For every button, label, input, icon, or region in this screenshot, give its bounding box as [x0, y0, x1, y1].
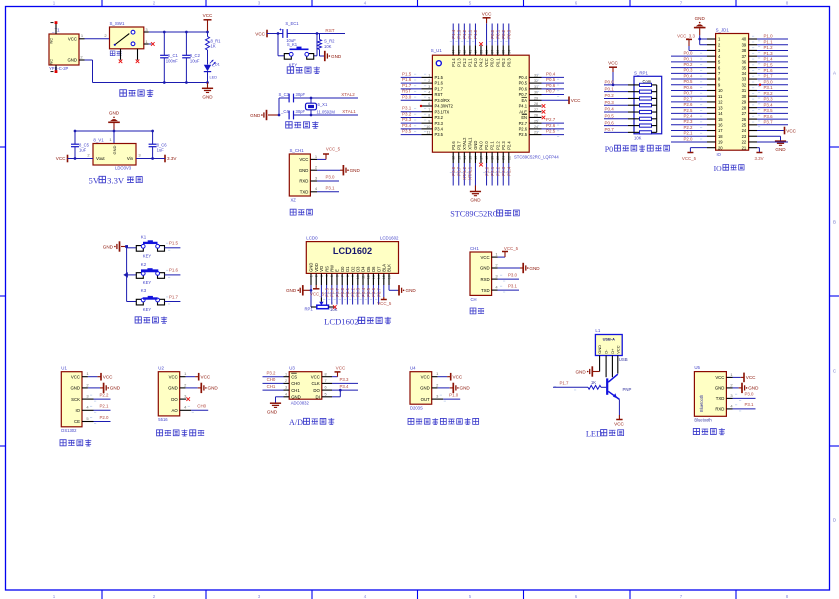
svg-text:P1.7: P1.7 — [559, 381, 569, 386]
svg-text:P1.7: P1.7 — [764, 74, 774, 79]
svg-text:P1.0: P1.0 — [449, 393, 459, 398]
svg-text:IO: IO — [717, 152, 722, 157]
svg-text:P1.2: P1.2 — [462, 29, 467, 39]
svg-text:27: 27 — [742, 111, 747, 116]
svg-text:7: 7 — [680, 594, 683, 599]
svg-text:4: 4 — [285, 392, 287, 396]
svg-text:VCC: VCC — [68, 36, 77, 41]
wire MCU top pin36 — [497, 24, 499, 56]
svg-text:P1.4: P1.4 — [764, 57, 774, 62]
svg-text:K3: K3 — [141, 288, 147, 293]
switch S_SW1 开关 — [110, 21, 144, 55]
svg-text:GND: GND — [695, 16, 706, 21]
svg-text:GND: GND — [331, 54, 342, 59]
svg-text:GND: GND — [286, 288, 297, 293]
pin number 1 — [730, 372, 733, 377]
svg-text:P0.3: P0.3 — [683, 68, 693, 73]
svg-text:GND: GND — [575, 369, 586, 374]
svg-text:2: 2 — [104, 33, 107, 38]
wire LCD pin13 — [372, 273, 374, 304]
wire MCU pin5 — [401, 99, 433, 101]
junction — [277, 32, 319, 35]
wire IO pin37 — [749, 55, 788, 57]
power port 3.3V — [754, 153, 763, 161]
wire pin4 to GND — [276, 397, 290, 403]
svg-text:USB: USB — [619, 357, 628, 362]
pin number 5 — [324, 392, 326, 396]
net label P3.5 — [402, 129, 426, 134]
svg-text:D203S: D203S — [410, 405, 423, 410]
net label P2.6 — [328, 287, 334, 300]
caption 下载口 — [290, 209, 312, 215]
svg-text:CH1: CH1 — [267, 384, 276, 389]
svg-text:VCC: VCC — [299, 157, 308, 162]
svg-text:P3.1: P3.1 — [402, 106, 412, 111]
net label P2.4 — [683, 113, 702, 118]
svg-text:P3.7: P3.7 — [456, 141, 461, 150]
svg-text:2: 2 — [285, 379, 287, 383]
svg-text:2: 2 — [436, 382, 439, 387]
junction — [612, 84, 615, 87]
net label P3.5 — [752, 108, 773, 116]
svg-text:PNP: PNP — [623, 387, 632, 392]
caption 复位电路 — [287, 67, 320, 74]
potentiometer RP1 10K — [305, 301, 338, 312]
wire pin3 — [492, 278, 519, 280]
capacitor S_C4 30pF — [280, 109, 305, 119]
wire USB pin2 — [605, 356, 607, 378]
svg-text:4: 4 — [495, 285, 498, 290]
pin number 4 — [495, 285, 498, 290]
svg-text:1: 1 — [145, 39, 148, 44]
capacitor 8_C5 1uF — [71, 131, 90, 159]
net label XTAL2 — [461, 166, 467, 180]
svg-text:14: 14 — [718, 111, 723, 116]
svg-text:5: 5 — [324, 392, 326, 396]
svg-text:P3.0: P3.0 — [744, 392, 754, 397]
ground — [694, 16, 706, 35]
wire IO pin25 — [749, 124, 788, 126]
MCU bottom pin numbers — [452, 156, 512, 160]
no-connect MCU pin26 — [529, 116, 545, 120]
wire LCD pin10 — [357, 273, 359, 304]
svg-text:VCC: VCC — [715, 375, 724, 380]
wire emitter to VCC — [618, 399, 620, 419]
caption P0口上拉电阻电路 — [605, 145, 670, 154]
svg-text:3: 3 — [258, 594, 261, 599]
ground — [202, 83, 213, 100]
MCU right pin names — [519, 75, 528, 137]
net label P0.4 — [605, 107, 615, 112]
wire LCD pin15 BLA — [383, 273, 385, 299]
svg-text:24: 24 — [742, 128, 747, 133]
svg-text:BLK: BLK — [387, 264, 392, 272]
LED D1 — [204, 60, 221, 80]
net label CH0 — [267, 377, 276, 382]
svg-text:P2.3: P2.3 — [501, 141, 506, 150]
wire pin2 to GND — [432, 387, 453, 389]
svg-text:VCC_5: VCC_5 — [682, 156, 697, 161]
wire MCU pin10 — [401, 128, 433, 130]
svg-text:2: 2 — [86, 382, 89, 387]
svg-text:P3.4: P3.4 — [764, 102, 774, 107]
net label P2.2 — [683, 125, 702, 130]
wire C2 top — [185, 32, 187, 55]
svg-text:_D1: _D1 — [212, 61, 221, 66]
pin number 1 — [86, 371, 89, 376]
svg-text:LCD1602: LCD1602 — [380, 236, 399, 241]
junction — [310, 97, 313, 100]
wire IO pin17 — [671, 130, 716, 132]
svg-text:1: 1 — [495, 252, 498, 257]
svg-text:DS1302: DS1302 — [61, 428, 77, 433]
crystal 6_X1 11.0592M — [306, 98, 336, 115]
wire RP1 pin 1 — [604, 84, 634, 86]
svg-text:P1.5: P1.5 — [402, 71, 412, 76]
wire IO pin34 — [749, 72, 788, 74]
svg-text:GND: GND — [406, 288, 417, 293]
transistor Q1 PNP — [607, 374, 631, 399]
svg-text:Vin: Vin — [127, 156, 134, 161]
svg-text:1: 1 — [53, 594, 56, 599]
net label P0.5 — [605, 114, 615, 119]
wire MCU top pin42 — [463, 24, 465, 56]
svg-text:2: 2 — [87, 152, 90, 157]
svg-text:1: 1 — [315, 154, 318, 159]
wire IO pin40 — [749, 38, 788, 40]
wire MCU top pin34 — [508, 24, 510, 56]
svg-text:22: 22 — [742, 140, 747, 145]
caption A/D转换电路 — [289, 418, 334, 427]
pin number 2 — [86, 382, 89, 387]
svg-text:P1.0: P1.0 — [473, 58, 478, 67]
connector T1 YPB-C-2P — [49, 28, 79, 71]
svg-text:18: 18 — [718, 134, 723, 139]
svg-text:P3.4: P3.4 — [435, 126, 444, 131]
power port VCC — [56, 155, 68, 163]
svg-text:D-: D- — [604, 349, 609, 354]
wire C1 bottom — [163, 58, 165, 83]
svg-text:GND: GND — [250, 113, 261, 118]
svg-text:2: 2 — [80, 54, 83, 59]
svg-text:P1.6: P1.6 — [764, 68, 774, 73]
svg-text:VCC: VCC — [746, 375, 756, 380]
net label P3.1 — [325, 185, 335, 190]
net label P1.0 — [752, 34, 773, 42]
svg-text:8_C5: 8_C5 — [79, 142, 90, 147]
wire MCU top pin44 — [452, 24, 454, 56]
svg-text:4: 4 — [315, 186, 318, 191]
wire T1 GND pin — [79, 54, 93, 60]
net label P0.7 — [683, 91, 702, 96]
svg-text:P1.3: P1.3 — [456, 29, 461, 39]
connector S_JD1 IO expansion 40-pin — [716, 27, 749, 157]
net label P3.7 — [455, 166, 461, 176]
svg-text:DO: DO — [171, 397, 178, 402]
junction — [206, 81, 209, 84]
bluetooth module U5 body — [694, 365, 726, 422]
svg-text:P0.1: P0.1 — [495, 29, 500, 39]
wire LCD pin3 VO — [320, 273, 322, 301]
power port VCC — [785, 127, 797, 135]
wire MCU bottom pin13 — [458, 152, 460, 185]
svg-text:P3.5: P3.5 — [402, 129, 412, 134]
svg-text:CH0: CH0 — [267, 377, 276, 382]
net label P3.3 — [339, 377, 349, 382]
power port VCC — [335, 366, 347, 372]
wire pin24 to VCC — [749, 130, 784, 132]
junction — [698, 38, 701, 41]
net label P0.7 — [375, 287, 381, 300]
svg-text:S_RP1: S_RP1 — [634, 70, 648, 75]
svg-text:NC: NC — [50, 59, 54, 65]
net label P3.3 — [402, 117, 426, 122]
wire pin23 to GND — [749, 136, 781, 141]
svg-text:P3.0/RX: P3.0/RX — [435, 98, 451, 103]
svg-text:GND: GND — [480, 266, 490, 271]
MCU left pin numbers 1-11 — [426, 74, 430, 135]
svg-text:31: 31 — [742, 88, 747, 93]
svg-text:GND: GND — [529, 266, 540, 271]
svg-text:RST: RST — [435, 92, 444, 97]
net label P0.3 — [683, 68, 702, 73]
net label P0.1 — [683, 56, 702, 61]
svg-text:D+: D+ — [610, 348, 615, 354]
svg-text:L1: L1 — [595, 328, 600, 333]
pin number 4 — [86, 405, 89, 410]
power port 3.3V — [165, 155, 177, 163]
net label P3.0 — [735, 392, 754, 401]
net label P0.4 — [537, 71, 559, 79]
resistor RP1 element 3 — [634, 97, 657, 100]
wire MCU VCC pin — [486, 23, 488, 55]
svg-text:KEY: KEY — [143, 280, 152, 285]
net label P1.0 — [440, 393, 459, 402]
svg-text:P0.5: P0.5 — [683, 79, 693, 84]
wire MCU pin6 — [421, 105, 432, 107]
svg-text:P4.0: P4.0 — [479, 141, 484, 150]
svg-text:LCD1602: LCD1602 — [333, 246, 372, 256]
svg-text:IO: IO — [714, 164, 723, 173]
net label P2.0 — [90, 415, 109, 424]
connector S_CH1 XZ download port — [289, 148, 310, 203]
power port VCC — [482, 11, 492, 23]
wire IO pin39 — [749, 44, 788, 46]
wire MCU EA to VCC — [529, 99, 568, 101]
svg-text:10K: 10K — [634, 135, 642, 140]
power port VCC — [608, 61, 618, 72]
svg-text:P0.1: P0.1 — [495, 58, 500, 67]
net label P1.7 — [166, 294, 179, 304]
net label P0.2 — [349, 287, 355, 300]
wire pin22 — [749, 141, 788, 143]
wire IO pin38 — [749, 49, 788, 51]
MCU U1 STC89C52RC_LQFP44 body — [431, 48, 560, 159]
power port VCC — [614, 420, 624, 427]
svg-text:P2.2: P2.2 — [99, 393, 109, 398]
svg-text:1uF: 1uF — [79, 148, 87, 153]
pin number 3 — [86, 394, 89, 399]
LCD pin numbers 1-16 — [309, 275, 391, 279]
wire pin2 to GND — [180, 387, 201, 389]
wire top rail — [75, 131, 153, 144]
wire IO pin13 — [671, 107, 716, 109]
wire GND rail — [93, 60, 208, 83]
svg-text:5: 5 — [86, 416, 89, 421]
svg-text:RXD: RXD — [481, 277, 490, 282]
no-connect — [333, 305, 337, 309]
svg-text:VCC_5: VCC_5 — [504, 246, 519, 251]
wire IO pin8 — [671, 78, 716, 80]
wire pin1 to VCC — [726, 376, 743, 378]
wire R2 to ground — [320, 50, 325, 57]
svg-text:P0.3: P0.3 — [507, 29, 512, 39]
net label P0.7 — [605, 127, 615, 132]
svg-text:P3.4: P3.4 — [402, 123, 412, 128]
net label P2.7 — [334, 287, 340, 300]
svg-text:3: 3 — [258, 1, 261, 6]
net label P0.0 — [339, 287, 345, 300]
net label XTAL2 — [341, 92, 355, 97]
svg-text:RST: RST — [325, 28, 334, 33]
ground — [267, 403, 281, 414]
svg-text:4: 4 — [364, 1, 367, 6]
svg-text:P1.4: P1.4 — [451, 58, 456, 67]
svg-text:P3.0: P3.0 — [325, 175, 335, 180]
svg-text:XTAL1: XTAL1 — [342, 109, 356, 114]
net label P2.1 — [489, 166, 495, 176]
net label P1.7 — [554, 381, 576, 391]
svg-text:P2.3: P2.3 — [683, 119, 693, 124]
svg-text:VCC: VCC — [608, 61, 618, 66]
svg-text:XTAL2: XTAL2 — [341, 92, 355, 97]
svg-text:3: 3 — [436, 394, 439, 399]
svg-text:P0.2: P0.2 — [605, 93, 615, 98]
wire base — [553, 386, 588, 388]
svg-text:GND: GND — [202, 94, 213, 99]
MCU top pin numbers — [452, 50, 512, 54]
svg-text:GND: GND — [112, 146, 117, 155]
svg-text:1: 1 — [184, 371, 187, 376]
svg-text:CLK: CLK — [311, 381, 319, 386]
ground — [775, 141, 786, 152]
pin number 2 — [495, 262, 498, 267]
ground — [201, 383, 218, 393]
net label P2.5 — [323, 287, 329, 300]
wire MCU pin9 — [401, 122, 433, 124]
power port VCC — [255, 30, 267, 38]
ADC U3 ADC0832 body — [289, 365, 322, 405]
capacitor S_C3 30pF — [279, 92, 306, 102]
net label P2.0 — [483, 166, 489, 176]
svg-text:P0.6: P0.6 — [546, 83, 556, 88]
svg-text:K2: K2 — [141, 262, 147, 267]
svg-text:P0.5: P0.5 — [605, 114, 615, 119]
svg-text:VCC: VCC — [421, 374, 430, 379]
svg-text:21: 21 — [742, 145, 747, 150]
svg-text:XZ: XZ — [291, 198, 297, 203]
svg-text:GND: GND — [597, 345, 602, 354]
svg-text:P0.2: P0.2 — [501, 58, 506, 67]
svg-text:6_X1: 6_X1 — [318, 102, 328, 107]
LCD display LCD0 LCD1602 body — [306, 236, 399, 274]
svg-text:GND: GND — [109, 111, 120, 116]
pin number 2 — [436, 382, 439, 387]
net label P1.2 — [752, 45, 773, 53]
net label P3.1 — [752, 85, 773, 93]
wire R1 to D1 — [207, 50, 209, 65]
svg-text:28: 28 — [742, 105, 747, 110]
svg-text:7: 7 — [680, 1, 683, 6]
MCU left pin names — [435, 75, 454, 137]
power port VCC — [569, 96, 581, 104]
svg-text:S_R2: S_R2 — [324, 39, 335, 44]
connector CH1 CH serial port — [470, 246, 492, 302]
svg-text:11.0592M: 11.0592M — [317, 110, 336, 115]
svg-text:P1.6: P1.6 — [402, 77, 412, 82]
svg-text:VCC: VCC — [71, 374, 80, 379]
net label P2.5 — [683, 108, 702, 113]
ground — [399, 285, 416, 295]
svg-text:OUT: OUT — [421, 397, 430, 402]
ground — [523, 263, 540, 273]
svg-text:VCC: VCC — [169, 374, 178, 379]
svg-text:P1.1: P1.1 — [468, 29, 473, 39]
wire IO pin14 — [671, 112, 716, 114]
wire MCU bottom pin19 — [491, 152, 493, 185]
svg-text:P2.0: P2.0 — [99, 415, 109, 420]
net label P1.6 — [166, 268, 179, 278]
net label P0.1 — [494, 29, 500, 42]
net label P1.6 — [402, 77, 426, 82]
svg-text:_C4: _C4 — [280, 109, 289, 114]
ground — [470, 192, 481, 203]
net label P0.6 — [537, 83, 559, 91]
svg-text:P3.0: P3.0 — [402, 94, 412, 99]
svg-text:8_R1: 8_R1 — [211, 38, 222, 43]
svg-text:GND: GND — [473, 141, 478, 150]
capacitor 6_C2 10uF — [182, 53, 200, 63]
svg-text:P0.7: P0.7 — [683, 91, 693, 96]
net label P0.2 — [605, 93, 615, 98]
wire pin2 to GND — [492, 267, 523, 269]
net label P3.0 — [500, 273, 518, 282]
pin number 3 — [285, 386, 287, 390]
svg-text:RP1: RP1 — [305, 306, 314, 311]
junction — [759, 84, 761, 86]
svg-text:P3.5: P3.5 — [764, 108, 774, 113]
svg-text:S_SW1: S_SW1 — [110, 21, 125, 26]
svg-text:GND: GND — [67, 58, 77, 63]
svg-text:RST: RST — [402, 89, 411, 94]
svg-text:GND: GND — [775, 147, 786, 152]
key K2 KEY — [127, 262, 181, 285]
net label P1.5 — [166, 241, 179, 251]
resistor S_R2 10K — [318, 34, 336, 50]
svg-text:8: 8 — [786, 594, 789, 599]
svg-text:P3.7: P3.7 — [456, 166, 461, 176]
svg-text:TXD: TXD — [300, 190, 309, 195]
net label P0.3 — [505, 29, 511, 42]
svg-text:STC89C52RC_LQFP44: STC89C52RC_LQFP44 — [514, 155, 559, 160]
svg-text:P1.1: P1.1 — [764, 39, 774, 44]
svg-text:CS: CS — [291, 374, 297, 379]
svg-text:P4.2: P4.2 — [479, 58, 484, 67]
net label P1.4 — [450, 29, 456, 42]
svg-text:40: 40 — [742, 37, 747, 42]
wire MCU bottom pin21 — [502, 152, 504, 185]
net label P2.2 — [494, 166, 500, 176]
